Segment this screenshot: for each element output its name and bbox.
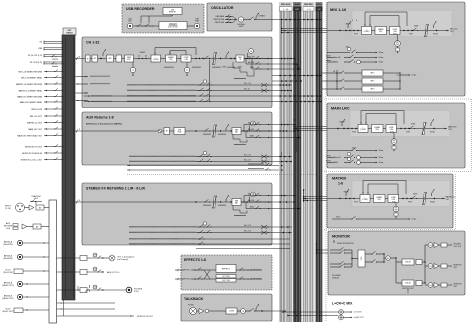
svg-text:to LR OUT: to LR OUT [354, 311, 362, 314]
svg-text:USB: USB [94, 255, 97, 257]
svg-text:PreFdr: PreFdr [354, 202, 359, 204]
svg-text:COMP: COMP [389, 127, 394, 129]
svg-text:EFFECTS 1-8: EFFECTS 1-8 [184, 258, 206, 262]
svg-text:MAIN LRC INSERT SEND: MAIN LRC INSERT SEND [20, 101, 43, 104]
svg-text:(P16): (P16) [134, 291, 139, 293]
svg-text:MUTE: MUTE [414, 26, 418, 28]
svg-text:FX OUT L: FX OUT L [253, 270, 261, 272]
svg-text:OUT (1-4): OUT (1-4) [454, 246, 462, 248]
svg-text:DEP: DEP [396, 44, 399, 46]
svg-text:→: → [118, 58, 120, 60]
svg-text:1 - 16: 1 - 16 [283, 9, 289, 11]
svg-text:ToTape: ToTape [379, 150, 384, 152]
svg-text:(1-16): (1-16) [5, 208, 11, 210]
svg-text:(ust'l 8 inputs): (ust'l 8 inputs) [117, 258, 129, 261]
svg-text:OSC: OSC [239, 19, 242, 21]
svg-text:Main L/R: Main L/R [248, 56, 255, 58]
svg-text:(48x48 OUT): (48x48 OUT) [2, 298, 14, 300]
svg-text:USB: USB [94, 287, 97, 289]
svg-text:EXP: EXP [127, 59, 130, 61]
svg-text:AT: AT [166, 130, 168, 133]
svg-text:MAIN LRC PRE DELAY OUT: MAIN LRC PRE DELAY OUT [17, 134, 42, 137]
svg-text:Mx 1-2, 16: Mx 1-2, 16 [244, 231, 251, 233]
svg-text:1-6: 1-6 [338, 182, 343, 186]
svg-text:MUTE: MUTE [411, 124, 415, 126]
svg-text:MONITOR L/R OUT: MONITOR L/R OUT [25, 146, 43, 148]
svg-text:(1-6): (1-6) [6, 228, 11, 230]
svg-text:TALKBACK: TALKBACK [184, 297, 204, 301]
svg-text:PreFdr: PreFdr [222, 67, 227, 69]
svg-text:32 IN / 32 OUT: 32 IN / 32 OUT [168, 27, 178, 29]
svg-text:LRC: LRC [295, 9, 300, 11]
svg-text:FX IN R: FX IN R [184, 279, 191, 281]
svg-text:MONITOR L+CR+C OUT: MONITOR L+CR+C OUT [21, 159, 43, 161]
svg-text:Mix 1-16: Mix 1-16 [248, 200, 254, 202]
svg-text:LEVEL: LEVEL [239, 26, 244, 28]
svg-text:MAIN LRC OUT: MAIN LRC OUT [28, 128, 42, 131]
svg-text:PINK NOISE: PINK NOISE [215, 22, 224, 24]
svg-text:MATRIX: MATRIX [304, 3, 313, 6]
svg-text:HPF: HPF [108, 58, 111, 60]
svg-text:ToTape: ToTape [379, 157, 384, 159]
svg-text:(COMP): (COMP) [153, 59, 159, 61]
svg-text:USB: USB [346, 47, 349, 49]
svg-text:COMP: COMP [229, 311, 235, 313]
svg-text:MAIN LRC INSERT RETURN: MAIN LRC INSERT RETURN [17, 95, 42, 98]
svg-text:ToTape: ToTape [412, 75, 417, 77]
svg-text:M/C: M/C [393, 140, 396, 142]
svg-text:LIM: LIM [429, 266, 431, 268]
svg-text:MAIN: MAIN [294, 3, 300, 6]
svg-text:MIX BUS: MIX BUS [281, 4, 291, 6]
svg-text:MIX 1-16 INSERT RETURN: MIX 1-16 INSERT RETURN [19, 71, 43, 73]
svg-text:MEMORY: MEMORY [169, 11, 177, 13]
svg-text:PreFdr: PreFdr [352, 132, 357, 134]
svg-text:(COMP): (COMP) [362, 199, 368, 201]
svg-text:COMP: COMP [391, 197, 396, 199]
svg-text:MATRIX 1-6 INSERT RETURN: MATRIX 1-6 INSERT RETURN [16, 83, 43, 86]
svg-text:MIX 1-16 OUT: MIX 1-16 OUT [30, 116, 43, 118]
svg-text:USB RECORDER: USB RECORDER [126, 7, 155, 11]
svg-text:M/C: M/C [396, 42, 399, 44]
svg-text:PreFdr: PreFdr [393, 34, 398, 36]
svg-text:LIM: LIM [429, 245, 431, 247]
svg-text:INSERT: INSERT [345, 24, 350, 26]
svg-text:FX 1-8 IN (L,R): FX 1-8 IN (L,R) [30, 62, 43, 64]
svg-text:DEP: DEP [395, 210, 398, 212]
svg-text:MONITOR L/R OUT: MONITOR L/R OUT [402, 288, 414, 290]
svg-text:(32x32 IN): (32x32 IN) [3, 272, 13, 274]
svg-text:8: 8 [79, 129, 80, 131]
svg-text:MAIN LRC: MAIN LRC [331, 107, 350, 111]
svg-text:to (M)/C OUT: to (M)/C OUT [354, 316, 364, 319]
svg-text:ToTape: ToTape [379, 62, 384, 64]
svg-text:L+CR+C MIX: L+CR+C MIX [332, 302, 353, 306]
svg-text:Main L/R: Main L/R [334, 157, 341, 159]
svg-text:FX 1-4 OUT (L,R): FX 1-4 OUT (L,R) [28, 55, 43, 57]
svg-text:Mix 1-16: Mix 1-16 [248, 129, 254, 131]
svg-text:USB: USB [178, 130, 181, 132]
svg-text:CH 1-32: CH 1-32 [86, 41, 99, 45]
svg-text:MATRIX 1-6 INSERT SEND: MATRIX 1-6 INSERT SEND [19, 89, 43, 92]
svg-text:SOLO: SOLO [316, 4, 322, 6]
svg-text:MATRIX: MATRIX [332, 177, 347, 181]
svg-text:MATRIX 1-6 OUT: MATRIX 1-6 OUT [27, 121, 43, 124]
svg-text:32: 32 [78, 56, 80, 58]
svg-text:COMP: COMP [392, 29, 397, 31]
svg-text:CHO / FLG: CHO / FLG [222, 280, 231, 282]
svg-text:USB: USB [94, 269, 97, 271]
svg-text:Mix 1-16: Mix 1-16 [248, 62, 254, 64]
svg-text:ToTape: ToTape [379, 57, 384, 59]
svg-text:USB: USB [128, 19, 131, 21]
svg-text:STEREO FX RETURNS 1 L/R - 8 L/: STEREO FX RETURNS 1 L/R - 8 L/R [86, 186, 145, 190]
svg-text:Mx 1-2, 16: Mx 1-2, 16 [244, 155, 251, 157]
svg-text:Fdr/Tape: Fdr/Tape [430, 202, 435, 204]
svg-text:MIX 1-16: MIX 1-16 [330, 7, 347, 12]
svg-text:INSERT: INSERT [343, 192, 348, 194]
svg-text:ToTape: ToTape [379, 52, 384, 54]
svg-text:DELAY: DELAY [405, 282, 411, 285]
svg-text:MUTE: MUTE [413, 194, 417, 196]
svg-text:DEP: DEP [393, 142, 396, 144]
svg-text:CONNECT: CONNECT [258, 16, 266, 18]
svg-text:WHITE NOISE: WHITE NOISE [213, 19, 224, 21]
svg-text:Fdr/Tape: Fdr/Tape [430, 132, 435, 134]
svg-text:(48x48 IN): (48x48 IN) [3, 244, 13, 246]
svg-text:OSCILLATOR: OSCILLATOR [211, 6, 234, 10]
svg-text:MONITOR SOURCE IN: MONITOR SOURCE IN [22, 153, 43, 155]
svg-text:(32x32 OUT): (32x32 OUT) [2, 311, 14, 313]
svg-text:(48x48 OUT): (48x48 OUT) [2, 285, 14, 287]
svg-text:ToTape: ToTape [412, 219, 417, 221]
svg-text:Fdr/Tape: Fdr/Tape [433, 34, 438, 36]
svg-text:USB: USB [171, 10, 174, 12]
svg-text:AUX Returns 1-8: AUX Returns 1-8 [86, 115, 114, 119]
svg-text:PATCH: PATCH [67, 32, 74, 35]
svg-text:Mx 1-16: Mx 1-16 [244, 89, 250, 91]
svg-text:PreFdr: PreFdr [354, 34, 359, 36]
svg-text:MONITOR: MONITOR [332, 235, 350, 239]
svg-text:TB: TB [242, 311, 244, 313]
svg-text:INSERT: INSERT [140, 52, 146, 54]
svg-text:AES OUT 1-6: AES OUT 1-6 [107, 271, 120, 274]
svg-text:SOURCES: SOURCES [332, 278, 339, 280]
svg-text:COMP: COMP [184, 57, 189, 59]
svg-text:PATCH CUE: PATCH CUE [31, 108, 42, 111]
svg-text:FX IN L: FX IN L [184, 270, 190, 272]
svg-text:LIM: LIM [429, 285, 431, 287]
svg-text:USB: USB [195, 19, 198, 21]
svg-text:DELAY: DELAY [405, 261, 411, 264]
svg-text:M/C: M/C [395, 208, 398, 210]
svg-text:Main L/R: Main L/R [248, 123, 255, 125]
svg-text:OUT: OUT [454, 267, 458, 269]
svg-text:Φ: Φ [87, 57, 89, 60]
svg-text:AUX Returns 7-8 by default on: AUX Returns 7-8 by default on USB Play [86, 122, 123, 125]
svg-text:(COMP): (COMP) [360, 129, 366, 131]
svg-text:MIX 1-16 INSERT SEND: MIX 1-16 INSERT SEND [21, 77, 42, 79]
svg-text:MONITOR L/R OUT: MONITOR L/R OUT [137, 316, 154, 318]
svg-text:Mx 1-2, 16: Mx 1-2, 16 [244, 160, 251, 162]
svg-text:MONITOR SOURCE IN: MONITOR SOURCE IN [337, 243, 355, 245]
svg-text:DLY / REV: DLY / REV [222, 276, 230, 278]
svg-text:B: B [352, 20, 353, 22]
svg-text:ToTape: ToTape [379, 162, 384, 164]
svg-text:Mx 1-2, 16: Mx 1-2, 16 [244, 83, 251, 85]
svg-text:INT MIC: INT MIC [188, 305, 195, 307]
svg-text:Main L/R: Main L/R [334, 57, 341, 59]
svg-text:(48x48 IN): (48x48 IN) [3, 258, 13, 260]
svg-text:(COMP): (COMP) [364, 31, 370, 33]
svg-text:EFFECT: EFFECT [222, 268, 231, 270]
svg-text:OUT: OUT [454, 286, 458, 288]
svg-text:FX OUT R: FX OUT R [253, 279, 262, 281]
svg-text:INSERT: INSERT [339, 122, 344, 124]
svg-text:16: 16 [78, 200, 80, 202]
svg-text:Mx 1-2, 16: Mx 1-2, 16 [244, 225, 251, 227]
svg-text:MO: MO [387, 258, 389, 260]
svg-text:F=20-20kHz: F=20-20kHz [237, 24, 245, 26]
svg-text:Main L/R: Main L/R [248, 194, 255, 196]
